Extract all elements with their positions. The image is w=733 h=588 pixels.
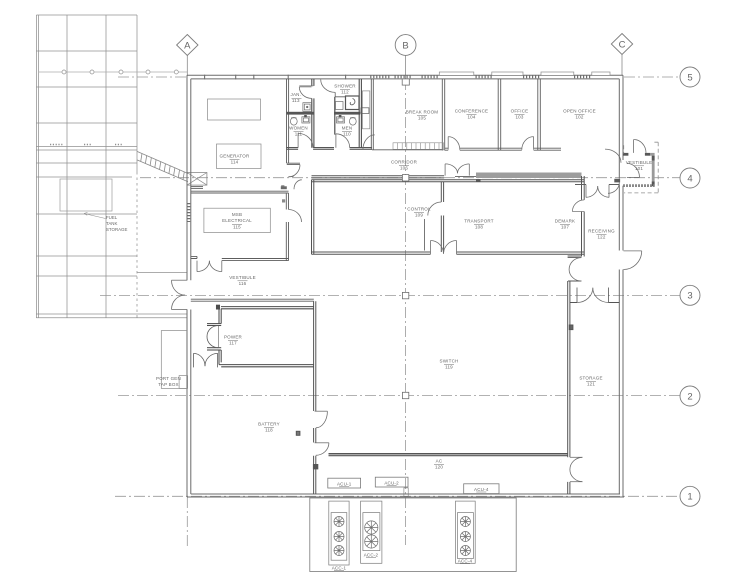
svg-text:BREAK ROOM: BREAK ROOM	[406, 110, 439, 115]
svg-text:122: 122	[597, 235, 605, 240]
grid line 5 horizontal	[118, 76, 186, 78]
wall MSB room east	[285, 193, 287, 261]
svg-text:4: 4	[687, 173, 692, 184]
wall corridor bottom thick east	[476, 173, 582, 179]
wall office/open office divider	[537, 79, 539, 150]
toilet chase	[362, 91, 369, 129]
wall break room west	[370, 79, 372, 150]
svg-text:SHOWER: SHOWER	[334, 84, 356, 89]
door corridor west lower	[294, 180, 302, 189]
wall control band top	[312, 179, 585, 181]
svg-text:5: 5	[687, 72, 692, 83]
door switch divider upper	[315, 410, 328, 412]
grid line 2 horizontal	[118, 395, 680, 397]
women WC	[290, 118, 297, 126]
svg-text:ACC-2: ACC-2	[364, 553, 379, 558]
canopy left edge double	[35, 15, 37, 318]
right wall inner	[618, 79, 620, 494]
grid bubble 4	[680, 168, 700, 188]
wall power west lower	[219, 350, 221, 365]
svg-text:108: 108	[475, 225, 483, 230]
door transport south double	[430, 241, 432, 255]
stem B	[405, 55, 407, 79]
door receiving exterior	[624, 250, 642, 252]
svg-text:ACC-1: ACC-1	[332, 566, 347, 571]
svg-text:110: 110	[343, 132, 351, 137]
svg-text:STORAGE: STORAGE	[579, 376, 602, 381]
wall battery/switch divider	[313, 301, 315, 494]
grid line 1 horizontal	[115, 495, 680, 497]
women sink	[302, 117, 310, 123]
wall office band bottom	[445, 147, 561, 149]
door conference	[447, 137, 449, 150]
svg-text:A: A	[184, 40, 191, 51]
door jan	[299, 86, 313, 87]
door MSB east	[289, 210, 302, 223]
wall generator bottom stub	[191, 186, 203, 188]
svg-text:GENERATOR: GENERATOR	[220, 154, 250, 159]
svg-text:PORT GEN: PORT GEN	[156, 376, 181, 381]
svg-text:ACU-1: ACU-1	[337, 481, 352, 486]
svg-text:TANK: TANK	[106, 221, 117, 226]
grid bubble 3	[680, 285, 700, 305]
canopy bottom edge	[36, 313, 187, 315]
svg-text:AC: AC	[436, 459, 443, 464]
wall control band bottom	[312, 251, 585, 253]
keynote corridor	[476, 179, 481, 181]
svg-text:2: 2	[687, 391, 692, 402]
svg-text:111: 111	[295, 132, 303, 137]
door switch divider lower	[315, 442, 329, 444]
svg-text:RECEIVING: RECEIVING	[588, 229, 615, 234]
svg-text:119: 119	[445, 365, 453, 370]
stem A	[186, 56, 188, 77]
men sink	[337, 117, 345, 123]
svg-text:CONTROL: CONTROL	[407, 207, 431, 212]
vestibule101 canopy dashed	[624, 142, 659, 193]
grid bubble 5	[680, 67, 700, 87]
wall transport/demark east	[581, 176, 583, 257]
svg-text:109: 109	[415, 213, 423, 218]
line canopy to building at vestibule	[137, 272, 187, 274]
left wall outer	[186, 75, 188, 497]
svg-text:ACU-2: ACU-2	[384, 480, 399, 485]
wall AC top	[329, 454, 568, 456]
vestibule101 south wall hatched	[623, 184, 655, 187]
power niche top stub	[207, 323, 221, 325]
top wall window panels	[439, 72, 610, 75]
wall corridor top (toilet block)	[287, 147, 373, 149]
shower seat	[336, 102, 344, 110]
louver left wall	[187, 203, 190, 222]
svg-text:116: 116	[239, 281, 247, 286]
svg-text:104: 104	[467, 115, 475, 120]
left wall inner	[190, 79, 192, 494]
wall shower/men	[334, 97, 336, 135]
door vestibule101 inner	[627, 176, 640, 178]
fuel tank leader line	[84, 212, 106, 218]
MSB equipment box	[204, 208, 270, 232]
svg-text:B: B	[402, 40, 408, 51]
keynote MSB east	[282, 199, 285, 202]
svg-text:CONFERENCE: CONFERENCE	[455, 109, 489, 114]
stoop box with X	[187, 173, 207, 186]
svg-text:OPEN OFFICE: OPEN OFFICE	[563, 109, 596, 114]
beam stiffener ticks	[50, 144, 122, 146]
grid marker C diamond	[611, 34, 632, 55]
svg-text:121: 121	[587, 382, 595, 387]
ACU-4 box	[464, 484, 499, 494]
corridor double doors	[444, 164, 446, 176]
svg-text:TRANSPORT: TRANSPORT	[464, 219, 494, 224]
svg-text:C: C	[619, 39, 626, 50]
wall corridor bottom west dark	[312, 176, 445, 178]
canopy beam	[36, 86, 137, 88]
svg-text:106: 106	[400, 166, 408, 171]
canopy beam double	[36, 146, 137, 148]
top wall joint ticks	[205, 75, 346, 80]
ACC-4 unit	[456, 501, 476, 563]
wall power top	[221, 306, 314, 308]
wall storage west	[567, 281, 569, 494]
wall MSB room bottom	[191, 256, 289, 258]
svg-text:112: 112	[341, 90, 349, 95]
door power niche double	[207, 326, 218, 348]
grid line 3 horizontal	[100, 294, 680, 296]
fan circles	[334, 517, 470, 556]
canopy column line	[105, 15, 107, 318]
label FUEL TANK STORAGE	[106, 215, 127, 232]
bottom wall inner	[191, 493, 620, 495]
generator unit box	[217, 144, 262, 169]
wall generator/toilet divider	[286, 79, 288, 163]
shower stall	[346, 96, 360, 110]
door storage north double	[577, 288, 593, 303]
fuel tank	[60, 179, 112, 211]
top wall outer	[187, 74, 623, 76]
port gen tap box	[161, 331, 186, 389]
grid line A below building	[186, 497, 188, 546]
svg-text:SWITCH: SWITCH	[440, 359, 459, 364]
wall break room bottom	[372, 149, 444, 151]
svg-text:TAP BOX: TAP BOX	[158, 382, 179, 387]
door vestibule101 north	[633, 140, 635, 153]
door vestibule116 exterior double	[172, 279, 188, 281]
wall control/transport divider	[440, 182, 442, 252]
wall corridor bottom thin piece	[455, 175, 476, 177]
svg-text:CORRIDOR: CORRIDOR	[391, 160, 418, 165]
jan sink counter	[303, 103, 312, 112]
svg-text:ACC-4: ACC-4	[458, 559, 473, 564]
svg-text:115: 115	[233, 225, 241, 230]
svg-text:101: 101	[635, 166, 643, 171]
door women	[297, 133, 299, 147]
ramp rungs	[141, 153, 142, 161]
canopy beam	[36, 213, 137, 215]
svg-text:POWER: POWER	[224, 335, 243, 340]
svg-text:117: 117	[229, 341, 237, 346]
svg-text:107: 107	[561, 225, 569, 230]
canopy column line	[66, 15, 68, 318]
door break room	[363, 135, 375, 150]
wall power west upper	[219, 307, 221, 324]
wall battery top	[191, 298, 314, 300]
canopy top edge	[36, 14, 137, 16]
door corridor west upper	[289, 165, 301, 177]
ACU-1 box	[328, 478, 361, 488]
svg-text:MEN: MEN	[342, 126, 353, 131]
keynote square power	[217, 305, 220, 309]
svg-text:3: 3	[687, 291, 692, 302]
canopy support circles	[62, 70, 178, 74]
svg-text:VESTIBULE: VESTIBULE	[229, 275, 256, 280]
ACC-1 unit	[329, 501, 349, 565]
ramp rails	[137, 151, 188, 173]
svg-text:FUEL: FUEL	[106, 215, 118, 220]
svg-text:VESTIBULE: VESTIBULE	[626, 160, 653, 165]
small box below ACU-2	[404, 488, 408, 496]
svg-text:118: 118	[265, 428, 273, 433]
canopy north fascia line to building	[39, 71, 187, 73]
right wall outer	[622, 75, 624, 497]
ACC-2 unit	[361, 501, 382, 563]
door battery double leaves	[194, 353, 218, 367]
wall receiving top	[575, 184, 619, 186]
svg-text:JAN.: JAN.	[291, 92, 302, 97]
svg-text:OFFICE: OFFICE	[511, 109, 529, 114]
canopy beam	[36, 50, 137, 52]
generator equipment	[208, 99, 261, 120]
power niche bottom stub	[207, 347, 221, 349]
svg-text:1: 1	[687, 492, 692, 503]
wall women/shower divider	[311, 79, 313, 148]
door storage west double	[570, 456, 582, 458]
canopy right edge	[136, 15, 138, 172]
grid bubble 1	[680, 486, 700, 506]
plumbing wall men	[334, 112, 360, 115]
door corridor end small	[608, 183, 619, 194]
keynote corridor west	[281, 186, 287, 189]
top wall inner	[191, 78, 620, 80]
canopy beam	[36, 162, 137, 164]
wall toilet block east	[358, 79, 360, 148]
door men	[335, 134, 337, 148]
concrete pad	[310, 498, 516, 572]
canopy beam	[36, 176, 132, 178]
door open office SE	[605, 149, 621, 163]
door control/transport	[428, 202, 442, 216]
svg-text:STORAGE: STORAGE	[106, 227, 127, 232]
ACU-2 box	[375, 477, 408, 487]
svg-text:ELECTRICAL: ELECTRICAL	[222, 218, 252, 223]
men WC	[349, 118, 356, 126]
grid marker B circle	[395, 35, 416, 56]
door switch/receiving "3"	[568, 256, 582, 281]
partition in control room	[424, 219, 426, 251]
vestibule101 east wall	[652, 156, 655, 187]
svg-text:102: 102	[575, 115, 583, 120]
keynote storage wall	[569, 325, 573, 330]
bottom wall outer	[187, 496, 624, 498]
keynote battery	[296, 431, 300, 435]
wall conference/office divider	[497, 79, 499, 150]
svg-text:DEMARK: DEMARK	[555, 219, 575, 224]
svg-text:MSB: MSB	[232, 212, 242, 217]
wall power bottom	[219, 364, 314, 366]
stem C	[621, 55, 623, 76]
grid line 4 horizontal	[140, 177, 680, 179]
svg-text:WOMEN: WOMEN	[289, 126, 308, 131]
canopy beam	[36, 275, 137, 277]
door receiving south double	[585, 185, 587, 198]
canopy beam	[36, 255, 137, 257]
canopy beam	[36, 122, 137, 124]
keynote MSB top	[281, 185, 284, 188]
door office 103	[533, 137, 535, 150]
corridor west end stub	[287, 163, 300, 164]
wall control west	[311, 180, 313, 255]
svg-text:114: 114	[231, 160, 239, 165]
plumbing wall women	[287, 112, 314, 115]
keynote square divider	[313, 465, 317, 469]
shower entry door arc	[321, 79, 336, 92]
svg-text:105: 105	[418, 116, 426, 121]
grid marker A diamond	[177, 35, 198, 56]
svg-text:ACU-4: ACU-4	[474, 487, 489, 492]
svg-text:120: 120	[435, 465, 443, 470]
wall storage top recess	[570, 302, 619, 304]
vestibule101 top wall	[623, 153, 628, 156]
grid bubble 2	[680, 386, 700, 406]
door demark east	[572, 200, 584, 212]
wall break/conference divider	[441, 79, 443, 150]
svg-text:103: 103	[515, 115, 523, 120]
door MSB to vestibule116 double	[196, 261, 198, 272]
svg-text:BATTERY: BATTERY	[258, 422, 280, 427]
grid line B vertical	[405, 79, 407, 545]
louvers on top wall	[189, 77, 592, 222]
wall MSB room top	[191, 190, 289, 192]
